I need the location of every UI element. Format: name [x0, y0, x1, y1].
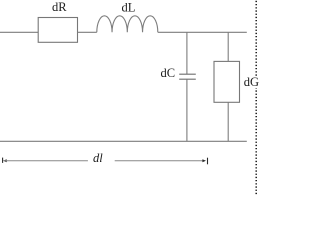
label dR [52, 0, 67, 14]
wire: capacitor branch lower [186, 79, 188, 141]
dimension line left segment [4, 160, 88, 162]
svg-text:dL: dL [122, 0, 136, 14]
label dL [122, 0, 136, 14]
svg-text:dl: dl [93, 151, 103, 165]
dimension line right segment [115, 160, 204, 162]
wire: top rail left segment [0, 31, 38, 33]
svg-text:dR: dR [52, 0, 67, 14]
boundary dotted line [255, 1, 257, 195]
wire: bottom rail [0, 140, 247, 142]
resistor dR body [38, 18, 77, 43]
wire: capacitor branch upper [186, 32, 188, 74]
wire: dG branch lower [227, 102, 229, 141]
wire: top rail right segment [158, 31, 247, 33]
dimension arrow right [202, 159, 206, 162]
wire: between dR and dL [78, 31, 97, 33]
dimension left tick [2, 158, 4, 163]
dimension arrow left [3, 159, 7, 162]
label dC [161, 66, 176, 80]
svg-text:dC: dC [161, 66, 176, 80]
svg-text:dG: dG [244, 75, 259, 89]
inductor dL coils [97, 16, 158, 33]
label dl [93, 151, 103, 165]
capacitor dC plates [179, 74, 196, 79]
label dG [243, 75, 261, 89]
resistor dG body [214, 61, 240, 102]
dimension right tick [207, 158, 209, 165]
wire: dG branch upper [227, 32, 229, 61]
